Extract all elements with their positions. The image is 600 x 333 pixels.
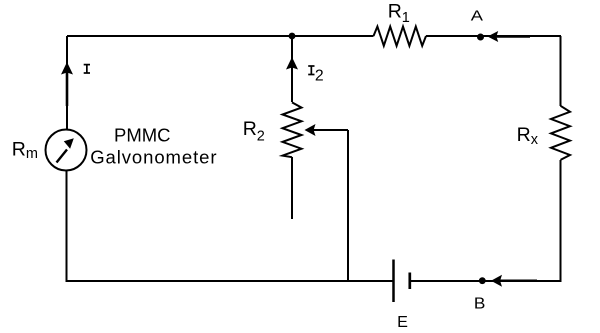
current arrow into node B (pointing left) xyxy=(491,275,537,287)
current arrow into node A (pointing left) xyxy=(488,31,531,42)
wire R2 branch vertical from junction xyxy=(291,36,293,102)
PMMC galvanometer meter body (Rm) xyxy=(46,130,87,171)
wire left vertical (bottom part) xyxy=(66,171,68,283)
svg-text:2: 2 xyxy=(315,67,324,84)
label I2 xyxy=(308,66,323,84)
R2 wiper arrow (pointing left into resistor) xyxy=(305,124,349,136)
wire right vertical (bottom part) xyxy=(560,160,562,282)
svg-text:Galvonometer: Galvonometer xyxy=(90,146,216,167)
battery E short plate (-) xyxy=(408,273,411,290)
node A xyxy=(477,34,484,41)
R2 open bottom lead xyxy=(291,157,293,219)
wire left vertical (top part) xyxy=(66,36,68,130)
current arrow I2 (pointing up) xyxy=(286,57,298,70)
svg-text:A: A xyxy=(471,7,484,24)
wire bottom horizontal (left of battery) xyxy=(67,280,394,282)
node B xyxy=(479,277,486,284)
resistor R1 xyxy=(374,27,427,46)
wire top horizontal left segment xyxy=(67,35,374,37)
wire right vertical (top part) xyxy=(560,36,562,106)
label I xyxy=(84,65,90,73)
resistor Rx (vertical) xyxy=(551,106,570,160)
battery E long plate (+) xyxy=(392,260,395,303)
wire bottom horizontal (right of battery) xyxy=(410,280,561,282)
svg-text:E: E xyxy=(397,314,408,331)
node junction dot (top of R2 branch) xyxy=(289,33,296,40)
wire top horizontal right segment xyxy=(426,35,561,37)
svg-text:PMMC: PMMC xyxy=(114,125,171,146)
current arrow I (pointing up on left wire) xyxy=(61,62,73,106)
galvanometer needle xyxy=(57,138,74,162)
wire wiper vertical down to bottom wire xyxy=(347,130,349,282)
svg-text:B: B xyxy=(474,296,486,313)
resistor R2 (vertical, rheostat) xyxy=(283,102,302,157)
